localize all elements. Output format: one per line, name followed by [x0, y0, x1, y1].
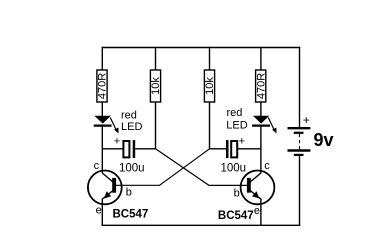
- resistor R1 470R: [97, 70, 109, 102]
- svg-text:100u: 100u: [119, 163, 145, 175]
- wire bottom rail: [102, 224, 301, 226]
- wire top rail to R3: [209, 47, 211, 70]
- wire top rail to R2: [155, 47, 157, 70]
- svg-text:470R: 470R: [255, 73, 267, 99]
- capacitor C1 100u: [123, 140, 135, 158]
- wire top rail to battery +: [299, 47, 301, 127]
- svg-text:b: b: [126, 187, 132, 199]
- svg-text:c: c: [264, 160, 270, 172]
- svg-text:c: c: [94, 160, 100, 172]
- svg-text:+: +: [303, 113, 310, 127]
- resistor R2 10k: [150, 70, 162, 102]
- svg-text:e: e: [96, 204, 102, 216]
- wire R4 to LED D2: [260, 102, 262, 117]
- wire C1 - plate to node A: [135, 148, 156, 150]
- wire node B to C2 - plate: [210, 148, 227, 150]
- wire D1 to Q1 collector: [101, 127, 103, 172]
- label red LED (left): [121, 110, 142, 134]
- svg-text:BC547: BC547: [113, 208, 149, 220]
- transistor Q2 BC547: [241, 171, 275, 205]
- svg-text:b: b: [234, 187, 240, 199]
- wire node B diagonal to Q1 base: [114, 149, 210, 186]
- LED D2 (red): [252, 116, 277, 134]
- wire top rail to R1: [101, 47, 103, 70]
- wire Q2 emitter to bottom rail: [260, 199, 262, 227]
- wire top supply rail: [102, 47, 301, 49]
- svg-text:10k: 10k: [150, 77, 162, 95]
- wire R1 to LED D1: [101, 102, 103, 117]
- resistor R4 470R: [255, 70, 267, 102]
- svg-text:BC547: BC547: [218, 210, 254, 222]
- svg-text:red: red: [227, 107, 243, 119]
- label red LED (right): [226, 107, 247, 132]
- wire battery - to bottom rail: [299, 156, 301, 226]
- svg-text:100u: 100u: [221, 163, 247, 175]
- wire C2 + plate to Q2 collector node: [237, 148, 261, 150]
- capacitor C2 100u: [226, 140, 237, 158]
- wire Q1 emitter to bottom rail: [101, 199, 103, 227]
- svg-text:9v: 9v: [314, 130, 334, 150]
- svg-text:red: red: [121, 110, 137, 122]
- wire Q1 collector node to C1 + plate: [102, 148, 123, 150]
- svg-text:470R: 470R: [97, 73, 109, 99]
- LED D1 (red): [94, 116, 119, 134]
- resistor R3 10k: [204, 70, 216, 102]
- svg-text:10k: 10k: [204, 77, 216, 95]
- svg-text:+: +: [239, 136, 245, 148]
- svg-text:e: e: [254, 205, 260, 217]
- battery BT1 9v: [288, 128, 311, 155]
- svg-text:LED: LED: [226, 120, 247, 132]
- wire node A diagonal to Q2 base: [156, 149, 250, 186]
- svg-text:LED: LED: [121, 121, 142, 133]
- svg-text:+: +: [114, 136, 120, 148]
- wire top rail to R4: [260, 47, 262, 70]
- wire R2 to node A (C1+ / base Q2 junction): [155, 102, 157, 150]
- wire R3 to node B (C2- / base Q1 junction): [209, 102, 211, 150]
- wire D2 to Q2 collector: [260, 127, 262, 172]
- transistor Q1 BC547: [88, 171, 122, 205]
